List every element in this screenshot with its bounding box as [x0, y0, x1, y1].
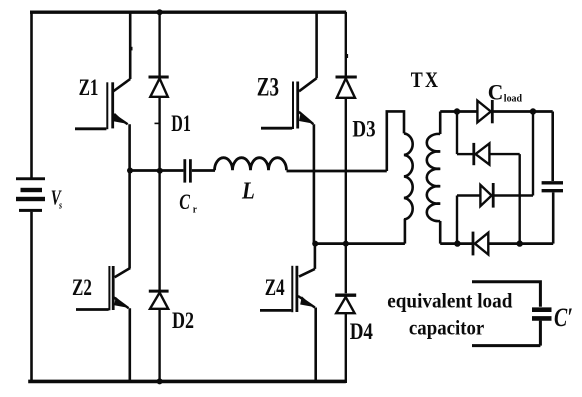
node row4 mid — [517, 240, 523, 246]
wire left vertical lower — [30, 212, 33, 383]
wire D3 top vertical — [345, 12, 347, 76]
wire left vertical upper — [30, 12, 33, 178]
wire D4 bottom vertical — [345, 314, 347, 384]
wire rectifier row1 right — [494, 110, 553, 113]
svg-text:D2: D2 — [172, 309, 194, 334]
diode D3 — [336, 77, 357, 98]
svg-text:s: s — [58, 200, 62, 211]
wire Cload top lead — [551, 112, 554, 182]
wire equivalent-load top — [472, 282, 540, 307]
wire primary bottom lead — [404, 219, 407, 244]
node bridge output / D4 — [343, 241, 349, 247]
wire top rail — [30, 10, 346, 13]
svg-text:equivalent load: equivalent load — [387, 290, 512, 313]
wire vertical row3-row4 — [456, 196, 458, 244]
battery Vs — [16, 177, 45, 212]
wire rectifier row2 left — [457, 153, 473, 155]
wire vertical row1-row2 — [456, 112, 458, 155]
svg-text:TX: TX — [411, 68, 440, 92]
svg-text:C: C — [179, 191, 190, 215]
node top rail / D1 — [157, 9, 163, 15]
wire L to transformer — [287, 170, 387, 173]
wire Cr to L — [192, 169, 215, 172]
wire secondary bottom lead — [439, 221, 442, 244]
wire vertical row1-row3 — [532, 112, 534, 196]
svg-text:D1: D1 — [171, 111, 191, 137]
wire D3-D4 mid vertical — [345, 98, 347, 293]
node row1 left — [454, 108, 460, 114]
wire Z3 emitter vertical — [313, 124, 316, 244]
svg-text:Z1: Z1 — [79, 76, 99, 101]
wire rectifier row2 right — [489, 153, 519, 155]
transistor Q Z1 — [75, 12, 130, 129]
svg-text:r: r — [193, 204, 198, 216]
wire Z2 emitter vertical — [129, 308, 132, 383]
capacitor Cr — [185, 159, 191, 182]
svg-text:Z4: Z4 — [265, 276, 285, 301]
diode rect row3 — [480, 183, 493, 208]
inductor TX secondary winding — [427, 134, 440, 221]
diode rect row4 — [473, 232, 488, 256]
inductor L — [215, 158, 287, 171]
wire Z4 emitter vertical — [314, 308, 317, 384]
svg-text:Z3: Z3 — [257, 73, 279, 102]
wire D2 bottom vertical — [158, 309, 160, 383]
transistor Q Z2 — [76, 266, 130, 310]
diode D4 — [335, 295, 356, 313]
svg-text:D3: D3 — [352, 116, 375, 142]
diode rect row1 — [477, 100, 492, 123]
svg-text:load: load — [504, 93, 523, 104]
wire bridge output bottom — [314, 242, 405, 245]
transistor Q Z4 — [260, 244, 315, 313]
tick artifact on Z1 collector — [130, 47, 132, 51]
diode D2 — [149, 291, 169, 309]
diode rect row2 — [474, 143, 490, 165]
wire mid-left node — [128, 169, 183, 172]
svg-text:C′: C′ — [554, 303, 573, 333]
wire D1 top vertical — [158, 12, 160, 76]
wire equivalent-load bottom — [472, 321, 540, 346]
wire rectifier row3 left — [457, 194, 480, 196]
diode D1 — [149, 77, 169, 97]
node row1 right — [530, 108, 536, 114]
wire bottom rail — [28, 380, 346, 384]
node row4 left — [454, 240, 460, 246]
wire Z1 emitter / Z2 collector vertical — [128, 124, 131, 268]
node bridge output / Z4 — [312, 241, 318, 247]
wire rectifier row3 right — [495, 194, 534, 196]
wire primary top lead — [387, 111, 404, 171]
wire D1-D2 mid vertical — [158, 98, 160, 290]
node mid-left / Z branch — [127, 168, 133, 174]
wire rectifier row4 right — [488, 242, 553, 245]
transistor Q Z3 — [261, 12, 317, 129]
capacitor C' — [532, 310, 552, 319]
wire secondary top lead — [439, 112, 442, 135]
capacitor Cload — [542, 183, 563, 191]
tick artifact on D3 vertical — [346, 54, 348, 58]
wire rectifier row1 — [440, 110, 477, 113]
svg-text:Z2: Z2 — [72, 276, 92, 301]
node bottom rail / D2 — [157, 378, 163, 384]
svg-text:C: C — [488, 80, 504, 104]
wire vertical row2-row4 — [519, 154, 521, 244]
wire Cload bottom lead — [552, 192, 555, 243]
svg-text:D4: D4 — [350, 318, 374, 344]
node mid-left / D branch — [157, 168, 163, 174]
tick artifact near D1 label — [155, 122, 160, 124]
inductor TX primary winding — [404, 133, 413, 219]
wire rectifier row4 left — [440, 242, 473, 245]
svg-text:L: L — [241, 177, 255, 204]
svg-text:capacitor: capacitor — [409, 317, 484, 340]
